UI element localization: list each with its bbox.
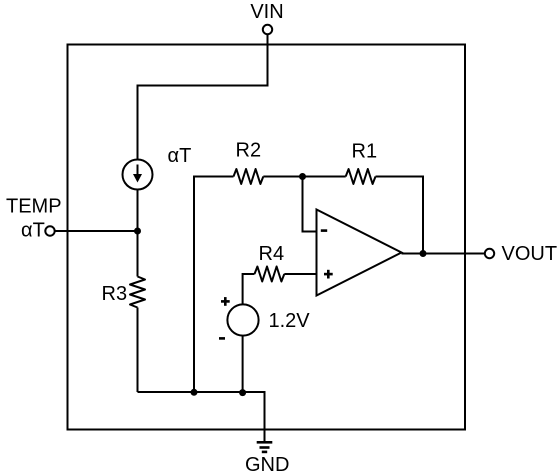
node VOUT terminal	[485, 249, 494, 258]
ground	[257, 441, 273, 453]
pin minus sign	[321, 229, 327, 232]
node VIN terminal	[263, 25, 272, 34]
svg-text:R1: R1	[352, 141, 378, 163]
wire inverting input	[303, 177, 317, 232]
svg-text:VOUT: VOUT	[502, 243, 558, 265]
wire noninverting input with R4	[284, 273, 316, 275]
op-amp U1	[317, 210, 402, 296]
svg-text:R4: R4	[259, 243, 285, 265]
junction R2 R1 inverting node	[299, 173, 306, 180]
wire output to VOUT	[402, 253, 485, 255]
resistor R1	[346, 169, 376, 184]
source plus sign	[221, 297, 230, 306]
svg-text:αT: αT	[168, 145, 192, 167]
svg-text:R3: R3	[102, 283, 128, 305]
wire R2 to junction	[263, 176, 302, 178]
resistor R2	[234, 169, 264, 184]
source minus sign	[219, 337, 225, 340]
node TEMP terminal	[45, 226, 54, 235]
IC boundary box	[68, 45, 466, 430]
svg-text:αT: αT	[21, 220, 45, 242]
voltage source 1.2V	[227, 304, 258, 335]
junction rail R2 branch	[191, 389, 198, 396]
wire current source to R3	[137, 190, 139, 277]
current source aT	[123, 160, 153, 190]
junction rail source	[239, 389, 246, 396]
wire TEMP to junction	[55, 230, 138, 232]
resistor R4	[255, 267, 285, 282]
wire junction to R1	[303, 176, 346, 178]
bottom rail wire to ground leg	[138, 392, 265, 442]
wire R2 branch vertical	[194, 177, 234, 393]
resistor R3	[130, 277, 145, 308]
junction output node	[420, 250, 427, 257]
svg-text:VIN: VIN	[250, 1, 283, 23]
svg-text:1.2V: 1.2V	[269, 310, 311, 332]
pin plus sign	[324, 270, 333, 279]
svg-text:TEMP: TEMP	[6, 196, 62, 218]
junction TEMP node	[134, 228, 141, 235]
wire R1 to output node	[376, 177, 424, 254]
wire source to rail	[242, 336, 244, 392]
svg-text:R2: R2	[236, 140, 262, 162]
wire R3 to rail	[137, 308, 139, 393]
wire R4 to source	[243, 274, 255, 305]
wire VIN to current source	[138, 34, 268, 160]
svg-text:GND: GND	[245, 454, 289, 476]
